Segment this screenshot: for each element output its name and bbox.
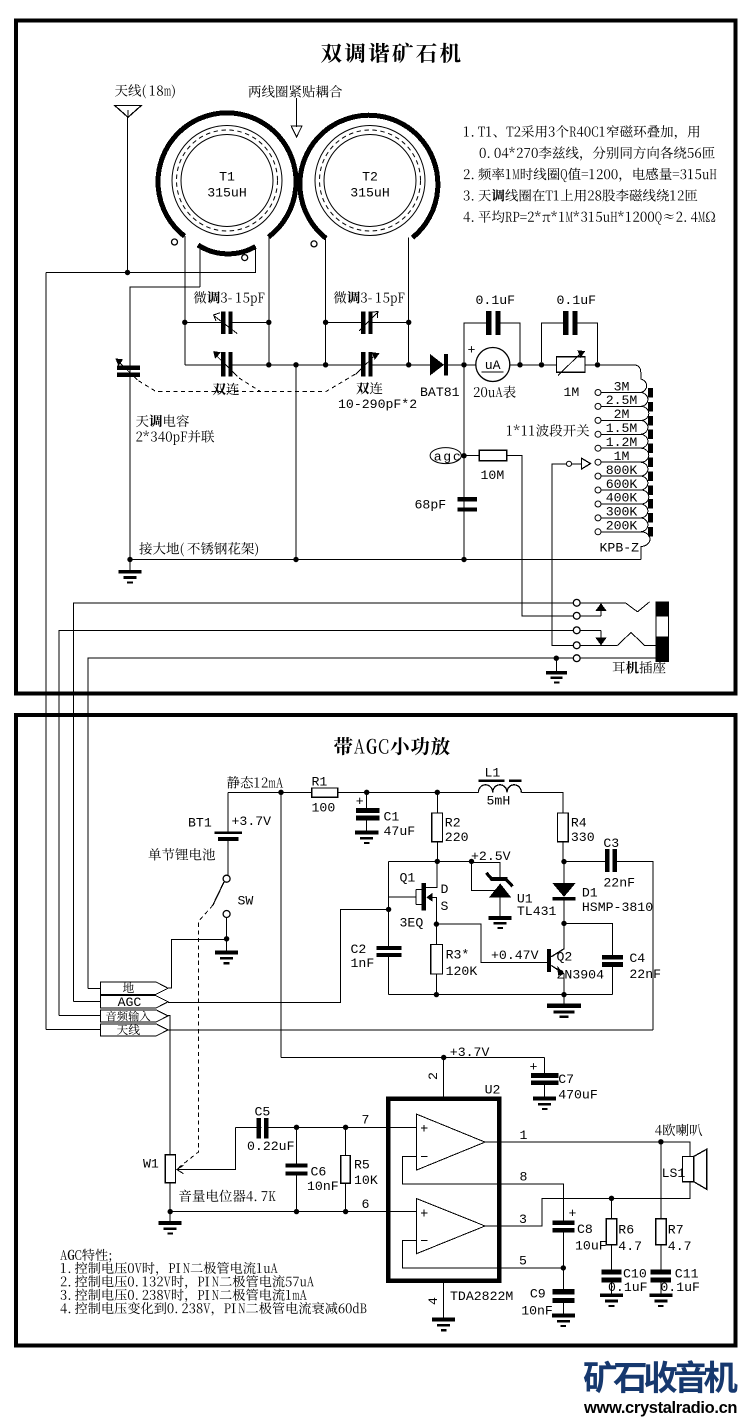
label gang2 label: [356, 382, 382, 394]
resistor R4: [558, 813, 569, 862]
svg-text:22nF: 22nF: [629, 967, 661, 982]
node jack ground junction: [554, 656, 559, 661]
switch SW: [213, 875, 230, 939]
capacitor C5 0.22uF: [177, 1118, 269, 1174]
top box frame: [16, 21, 736, 694]
svg-text:S: S: [441, 899, 449, 914]
wire ganged row to ground bus: [295, 365, 297, 560]
wire ground bus: [130, 559, 641, 561]
svg-text:C3: C3: [603, 836, 619, 851]
svg-text:220: 220: [445, 830, 469, 845]
label note line3: [464, 168, 717, 182]
label trimmer2 label: [334, 291, 405, 306]
capacitor C11 0.1uF: [649, 1245, 672, 1307]
wire pin3 output to speaker return: [485, 1182, 690, 1226]
transistor Q2 2N3904: [547, 923, 565, 994]
svg-text:C9: C9: [530, 1286, 546, 1301]
svg-text:R1: R1: [312, 775, 328, 790]
svg-text:W1: W1: [143, 1156, 159, 1171]
svg-text:+3.7V: +3.7V: [232, 814, 272, 829]
svg-text:0.1uF: 0.1uF: [476, 293, 516, 308]
label flag antenna: [117, 1024, 140, 1035]
label coupling label: [249, 85, 342, 97]
svg-text:315uH: 315uH: [207, 186, 247, 201]
label earth label: [139, 542, 258, 556]
capacitor antenna tuning 2x340pF: [115, 358, 140, 559]
wire audio line to bottom box: [59, 630, 573, 1015]
svg-text:4: 4: [426, 1297, 441, 1305]
ground at phone jack: [546, 658, 567, 683]
svg-text:100: 100: [312, 801, 336, 816]
svg-text:+: +: [468, 343, 476, 358]
resistor R7: [656, 1142, 666, 1245]
label meter label: [474, 386, 516, 399]
svg-text:C5: C5: [255, 1105, 271, 1120]
bottom box frame: [16, 715, 736, 1346]
svg-text:10uF: 10uF: [575, 1238, 607, 1253]
wire T1 left end down: [184, 236, 186, 365]
svg-text:www.crystalradio.cn: www.crystalradio.cn: [583, 1399, 738, 1417]
svg-text:+2.5V: +2.5V: [471, 849, 511, 864]
label AGC note 3: [61, 1289, 307, 1303]
op-amp B triangle: [417, 1199, 485, 1254]
svg-text:10M: 10M: [481, 468, 505, 483]
svg-text:R5: R5: [354, 1157, 370, 1172]
svg-text:10K: 10K: [354, 1173, 378, 1188]
svg-text:1M: 1M: [564, 385, 580, 400]
svg-text:TDA2822M: TDA2822M: [450, 1289, 513, 1304]
label AGC note 2: [61, 1275, 314, 1289]
jack tip spring contact upper: [580, 602, 649, 612]
wire +2.5V node: [389, 860, 472, 862]
jack plug arrow upper: [580, 603, 607, 616]
wire +3.7V amp rail: [281, 1057, 545, 1059]
svg-text:10nF: 10nF: [521, 1303, 553, 1318]
svg-text:+: +: [356, 794, 364, 809]
capacitor C9 10nF: [552, 1268, 575, 1327]
wire rail R1 to L1: [338, 791, 479, 793]
wire pin2 supply: [443, 1058, 445, 1099]
label flag ground: [123, 982, 134, 992]
svg-text:3M: 3M: [614, 379, 630, 394]
resistor R3*: [431, 924, 443, 995]
svg-text:TL431: TL431: [517, 904, 557, 919]
svg-text:uA: uA: [485, 358, 501, 373]
wire ground flag link: [168, 940, 227, 989]
ground pin4: [432, 1318, 455, 1332]
label quiescent label: [227, 776, 283, 788]
wire antenna lead-in: [127, 117, 129, 272]
label AGC note 1: [61, 1262, 278, 1276]
svg-text:1M: 1M: [614, 449, 630, 464]
label AGC note 4: [60, 1302, 366, 1316]
node C1 junction: [364, 790, 369, 795]
svg-text:2.5M: 2.5M: [606, 393, 638, 408]
label W1 label: [179, 1190, 275, 1203]
node R2 junction: [435, 790, 440, 795]
svg-text:0.1uF: 0.1uF: [660, 1280, 700, 1295]
svg-text:agc: agc: [434, 449, 463, 464]
switch wiper arm: [552, 458, 591, 645]
svg-text:2: 2: [426, 1072, 441, 1080]
wire T2 right end down: [408, 238, 410, 365]
svg-text:C8: C8: [577, 1222, 593, 1237]
wire op-amp B feedback to pin5: [403, 1241, 564, 1268]
capacitor C6 10nF: [286, 1125, 308, 1215]
svg-text:330: 330: [571, 830, 595, 845]
potentiometer W1 volume 4.7K: [165, 1155, 175, 1212]
svg-text:C7: C7: [558, 1072, 574, 1087]
svg-text:R7: R7: [668, 1222, 684, 1237]
label battery label: [148, 848, 215, 861]
capacitor trimmer 3-15pF on T1: [182, 311, 271, 334]
capacitor 68pF: [457, 497, 477, 511]
svg-text:LS1: LS1: [662, 1166, 686, 1181]
wire pin1 output: [485, 1142, 690, 1157]
node detector junction: [461, 362, 466, 367]
transformer T2 winding: [300, 115, 438, 247]
coupling arrow between coils: [291, 98, 302, 137]
wire pin6 input: [170, 1211, 417, 1213]
svg-text:6: 6: [362, 1197, 370, 1212]
svg-text:KPB-Z: KPB-Z: [600, 541, 640, 556]
svg-text:47uF: 47uF: [384, 824, 416, 839]
wire antenna line to C3: [168, 1029, 653, 1031]
svg-text:2N3904: 2N3904: [557, 967, 605, 982]
svg-text:315uH: 315uH: [350, 186, 390, 201]
jack tip spring contact lower: [580, 633, 656, 646]
capacitor 0.1uF bridging rheostat: [542, 311, 598, 362]
transistor Q1 FET: [389, 861, 437, 924]
svg-text:3EQ: 3EQ: [400, 916, 424, 931]
capacitor C4 22nF: [564, 923, 623, 994]
wire T1 right end down: [268, 237, 270, 365]
node agc oval label: [430, 448, 461, 464]
shunt regulator U1 TL431: [472, 861, 513, 929]
flag label box AGC: [101, 996, 169, 1008]
svg-text:HSMP-3810: HSMP-3810: [582, 900, 653, 915]
svg-text:D1: D1: [582, 885, 598, 900]
svg-text:+3.7V: +3.7V: [450, 1045, 490, 1060]
potentiometer rheostat 1M: [539, 350, 633, 375]
gang linkage dashed line: [139, 374, 357, 392]
node D1 cathode junction: [561, 921, 566, 926]
svg-text:0.1uF: 0.1uF: [608, 1280, 648, 1295]
flag label box ground: [101, 982, 169, 994]
label ant cap label2: [136, 430, 214, 445]
svg-text:T1: T1: [219, 170, 235, 185]
main detector row wire: [185, 362, 430, 367]
ground main: [547, 995, 581, 1018]
svg-text:4.7: 4.7: [618, 1239, 642, 1254]
node R7 junction: [658, 1139, 663, 1144]
label title: [321, 43, 461, 63]
capacitor C3 22nF: [564, 849, 653, 1030]
svg-text:8: 8: [520, 1170, 528, 1185]
svg-text:D: D: [441, 882, 449, 897]
label band switch label: [507, 424, 589, 436]
svg-text:200K: 200K: [606, 519, 638, 534]
diode D1 HSMP-3810 PIN: [552, 859, 575, 924]
wire pin4 ground: [443, 1281, 445, 1318]
svg-text:BT1: BT1: [188, 816, 212, 831]
wire jack sleeve right: [580, 657, 656, 659]
svg-text:4.7: 4.7: [668, 1239, 692, 1254]
capacitor dual-gang section on T1: [213, 351, 237, 376]
ground W1: [159, 1212, 182, 1235]
capacitor C2 1nF: [377, 909, 402, 994]
node supply branch down: [278, 790, 283, 795]
label AGC notes title: [60, 1249, 111, 1262]
IC U2 TDA2822M box: [388, 1099, 499, 1281]
svg-text:120K: 120K: [446, 964, 478, 979]
svg-text:AGC: AGC: [118, 995, 142, 1010]
capacitor trimmer 3-15pF on T2: [323, 311, 412, 334]
band switch contacts 1x11: [595, 390, 601, 535]
label speaker label: [655, 1124, 702, 1136]
battery BT1: [214, 792, 242, 875]
svg-text:+: +: [530, 1060, 538, 1075]
antenna symbol: [115, 106, 142, 118]
svg-text:1: 1: [520, 1128, 528, 1143]
node bus junction: [461, 557, 466, 562]
capacitor C1 47uF: [355, 792, 379, 844]
wire T2 left end down: [325, 238, 327, 364]
capacitor dual-gang section on T2: [356, 352, 380, 376]
dashed mechanical link SW to W1: [177, 905, 213, 1168]
node W1 ground junction: [168, 1209, 173, 1214]
label subtitle: [334, 737, 450, 755]
svg-text:1.5M: 1.5M: [606, 421, 638, 436]
capacitor C7 470uF: [531, 1058, 559, 1111]
phone jack contacts: [573, 599, 580, 661]
resistor R2: [432, 792, 443, 861]
svg-text:SW: SW: [238, 894, 254, 909]
label note line2: [480, 146, 715, 160]
ground earth symbol: [119, 560, 142, 584]
jack plug arrow lower: [580, 630, 607, 645]
capacitor C8 10uF: [552, 1220, 574, 1270]
label antenna label: [115, 84, 175, 98]
wire audio in to volume pot: [168, 1016, 170, 1155]
svg-text:3: 3: [519, 1212, 527, 1227]
svg-text:C6: C6: [311, 1165, 327, 1180]
label jack label: [613, 661, 666, 674]
svg-text:T2: T2: [362, 170, 378, 185]
node Q1 source junction: [434, 921, 439, 926]
node antenna junction: [125, 270, 130, 275]
svg-text:BAT81: BAT81: [420, 385, 460, 400]
op-amp A triangle: [417, 1114, 485, 1170]
wire flag connections left: [88, 987, 101, 989]
svg-text:10nF: 10nF: [307, 1179, 339, 1194]
svg-text:2M: 2M: [614, 407, 630, 422]
node R6 junction: [609, 1196, 614, 1201]
svg-text:5: 5: [519, 1253, 527, 1268]
wire line1: antenna row to T1 coupling winding right end: [46, 247, 256, 273]
node battery ground junction: [224, 936, 229, 941]
svg-text:+0.47V: +0.47V: [491, 948, 539, 963]
wire emitter ground bus: [389, 994, 613, 996]
svg-text:U2: U2: [485, 1083, 501, 1098]
svg-text:5mH: 5mH: [487, 794, 511, 809]
svg-text:400K: 400K: [606, 491, 638, 506]
resistor R6: [606, 1198, 616, 1245]
meter 20uA: [476, 348, 557, 382]
resistor R5 10K: [341, 1125, 350, 1215]
wire supply rail top: [228, 791, 312, 793]
svg-text:68pF: 68pF: [415, 498, 447, 513]
label gang1 label: [213, 383, 239, 395]
resistor R1: [312, 788, 338, 797]
svg-text:300K: 300K: [606, 505, 638, 520]
svg-text:L1: L1: [485, 766, 501, 781]
svg-text:1nF: 1nF: [351, 956, 375, 971]
node agc junction: [461, 453, 466, 458]
svg-text:R4: R4: [571, 816, 587, 831]
speaker LS1: [682, 1149, 706, 1189]
flag label box audio-in: [101, 1010, 169, 1022]
svg-text:22nF: 22nF: [603, 876, 635, 891]
inductor L1 5mH: [478, 781, 563, 813]
resistor 10M: [462, 450, 574, 616]
svg-text:0.1uF: 0.1uF: [557, 293, 597, 308]
label flag audio: [106, 1011, 150, 1022]
svg-text:C2: C2: [351, 942, 367, 957]
svg-text:800K: 800K: [606, 463, 638, 478]
phone jack body: [656, 602, 669, 662]
label trimmer1 label: [194, 291, 265, 306]
svg-text:R3*: R3*: [446, 947, 470, 962]
svg-text:600K: 600K: [606, 477, 638, 492]
wire pin7 input: [236, 1126, 417, 1128]
svg-text:C4: C4: [629, 951, 645, 966]
wire supply to amp rail: [280, 792, 282, 1057]
label watermark logo: [584, 1360, 738, 1393]
svg-text:+: +: [569, 1206, 577, 1221]
inductor tapped coil KPB-Z: [598, 365, 651, 560]
label ant cap label1: [136, 415, 189, 428]
svg-text:Q2: Q2: [557, 949, 573, 964]
wire Q1 source to Q2 base: [436, 924, 547, 963]
capacitor C10 0.1uF: [600, 1245, 623, 1307]
svg-text:R6: R6: [618, 1222, 634, 1237]
svg-text:470uF: 470uF: [558, 1088, 598, 1103]
svg-text:0.22uF: 0.22uF: [247, 1139, 294, 1154]
label note line5: [463, 210, 715, 224]
ground battery: [215, 939, 238, 965]
diode BAT81: [430, 354, 476, 376]
svg-text:C1: C1: [384, 810, 400, 825]
wire AGC line to bottom box: [74, 603, 574, 1002]
wire op-amp A feedback to pin8: [403, 1157, 564, 1221]
wire antenna net down to bottom box: [45, 273, 47, 1030]
svg-text:10-290pF*2: 10-290pF*2: [338, 397, 417, 412]
wire detector node vertical: [463, 365, 465, 560]
label note line1: [464, 125, 699, 139]
capacitor 0.1uF bridging meter: [464, 311, 523, 367]
label note line4: [464, 189, 698, 202]
wire line2: T1 coupling winding left end to tuning cap: [130, 287, 200, 366]
transformer T1 winding: [158, 113, 296, 261]
wire ground line to bottom box: [88, 658, 573, 988]
svg-text:1.2M: 1.2M: [606, 435, 638, 450]
svg-text:R2: R2: [445, 816, 461, 831]
node Q1 gate AGC junction: [386, 907, 391, 912]
wire AGC to Q1 gate: [168, 909, 389, 1002]
svg-text:7: 7: [362, 1113, 370, 1128]
svg-text:Q1: Q1: [400, 871, 416, 886]
flag label box antenna: [101, 1024, 169, 1036]
